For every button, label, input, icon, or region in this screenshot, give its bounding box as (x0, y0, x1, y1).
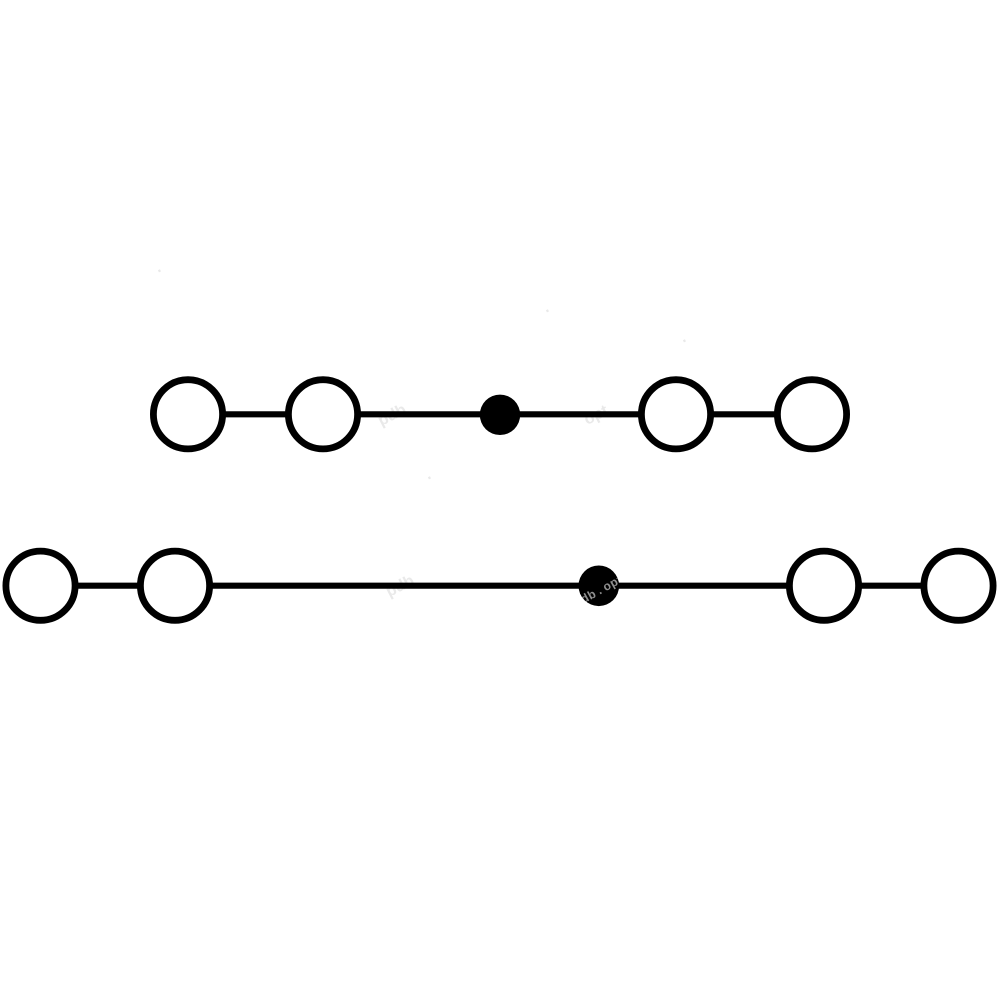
wire: bottom rail conductor from terminal 5 to terminal 8 (41, 583, 959, 589)
junction dot (bottom rail) (579, 566, 620, 607)
faint background watermark specks (154, 263, 691, 601)
terminal circle 2 (top rail) (288, 380, 357, 449)
terminal circle 8 (bottom rail) (924, 551, 993, 620)
terminal circle 3 (top rail) (641, 380, 710, 449)
terminal circle 7 (bottom rail) (789, 551, 858, 620)
terminal circle 5 (bottom rail) (6, 551, 75, 620)
terminal circle 6 (bottom rail) (140, 551, 209, 620)
junction dot (top rail) (480, 395, 520, 435)
terminal circle 4 (top rail) (777, 380, 846, 449)
terminal circle 1 (top rail) (153, 380, 222, 449)
wire: top rail conductor from terminal 1 to terminal 4 (188, 411, 812, 417)
